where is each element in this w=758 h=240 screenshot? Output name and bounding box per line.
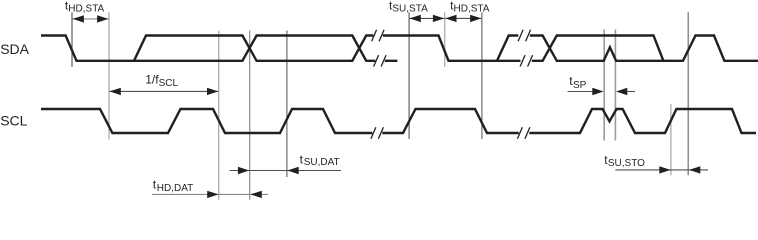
svg-text:SU,DAT: SU,DAT bbox=[304, 157, 340, 168]
svg-text:HD,STA: HD,STA bbox=[68, 3, 104, 14]
svg-text:HD,DAT: HD,DAT bbox=[157, 183, 193, 194]
svg-text:SP: SP bbox=[573, 80, 587, 91]
svg-text:SCL: SCL bbox=[159, 78, 179, 89]
svg-text:SDA: SDA bbox=[0, 41, 29, 57]
svg-text:SCL: SCL bbox=[0, 112, 27, 128]
svg-text:HD,STA: HD,STA bbox=[454, 3, 490, 14]
svg-text:SU,STO: SU,STO bbox=[608, 158, 645, 169]
svg-text:1/f: 1/f bbox=[145, 72, 159, 86]
svg-text:SU,STA: SU,STA bbox=[392, 3, 428, 14]
